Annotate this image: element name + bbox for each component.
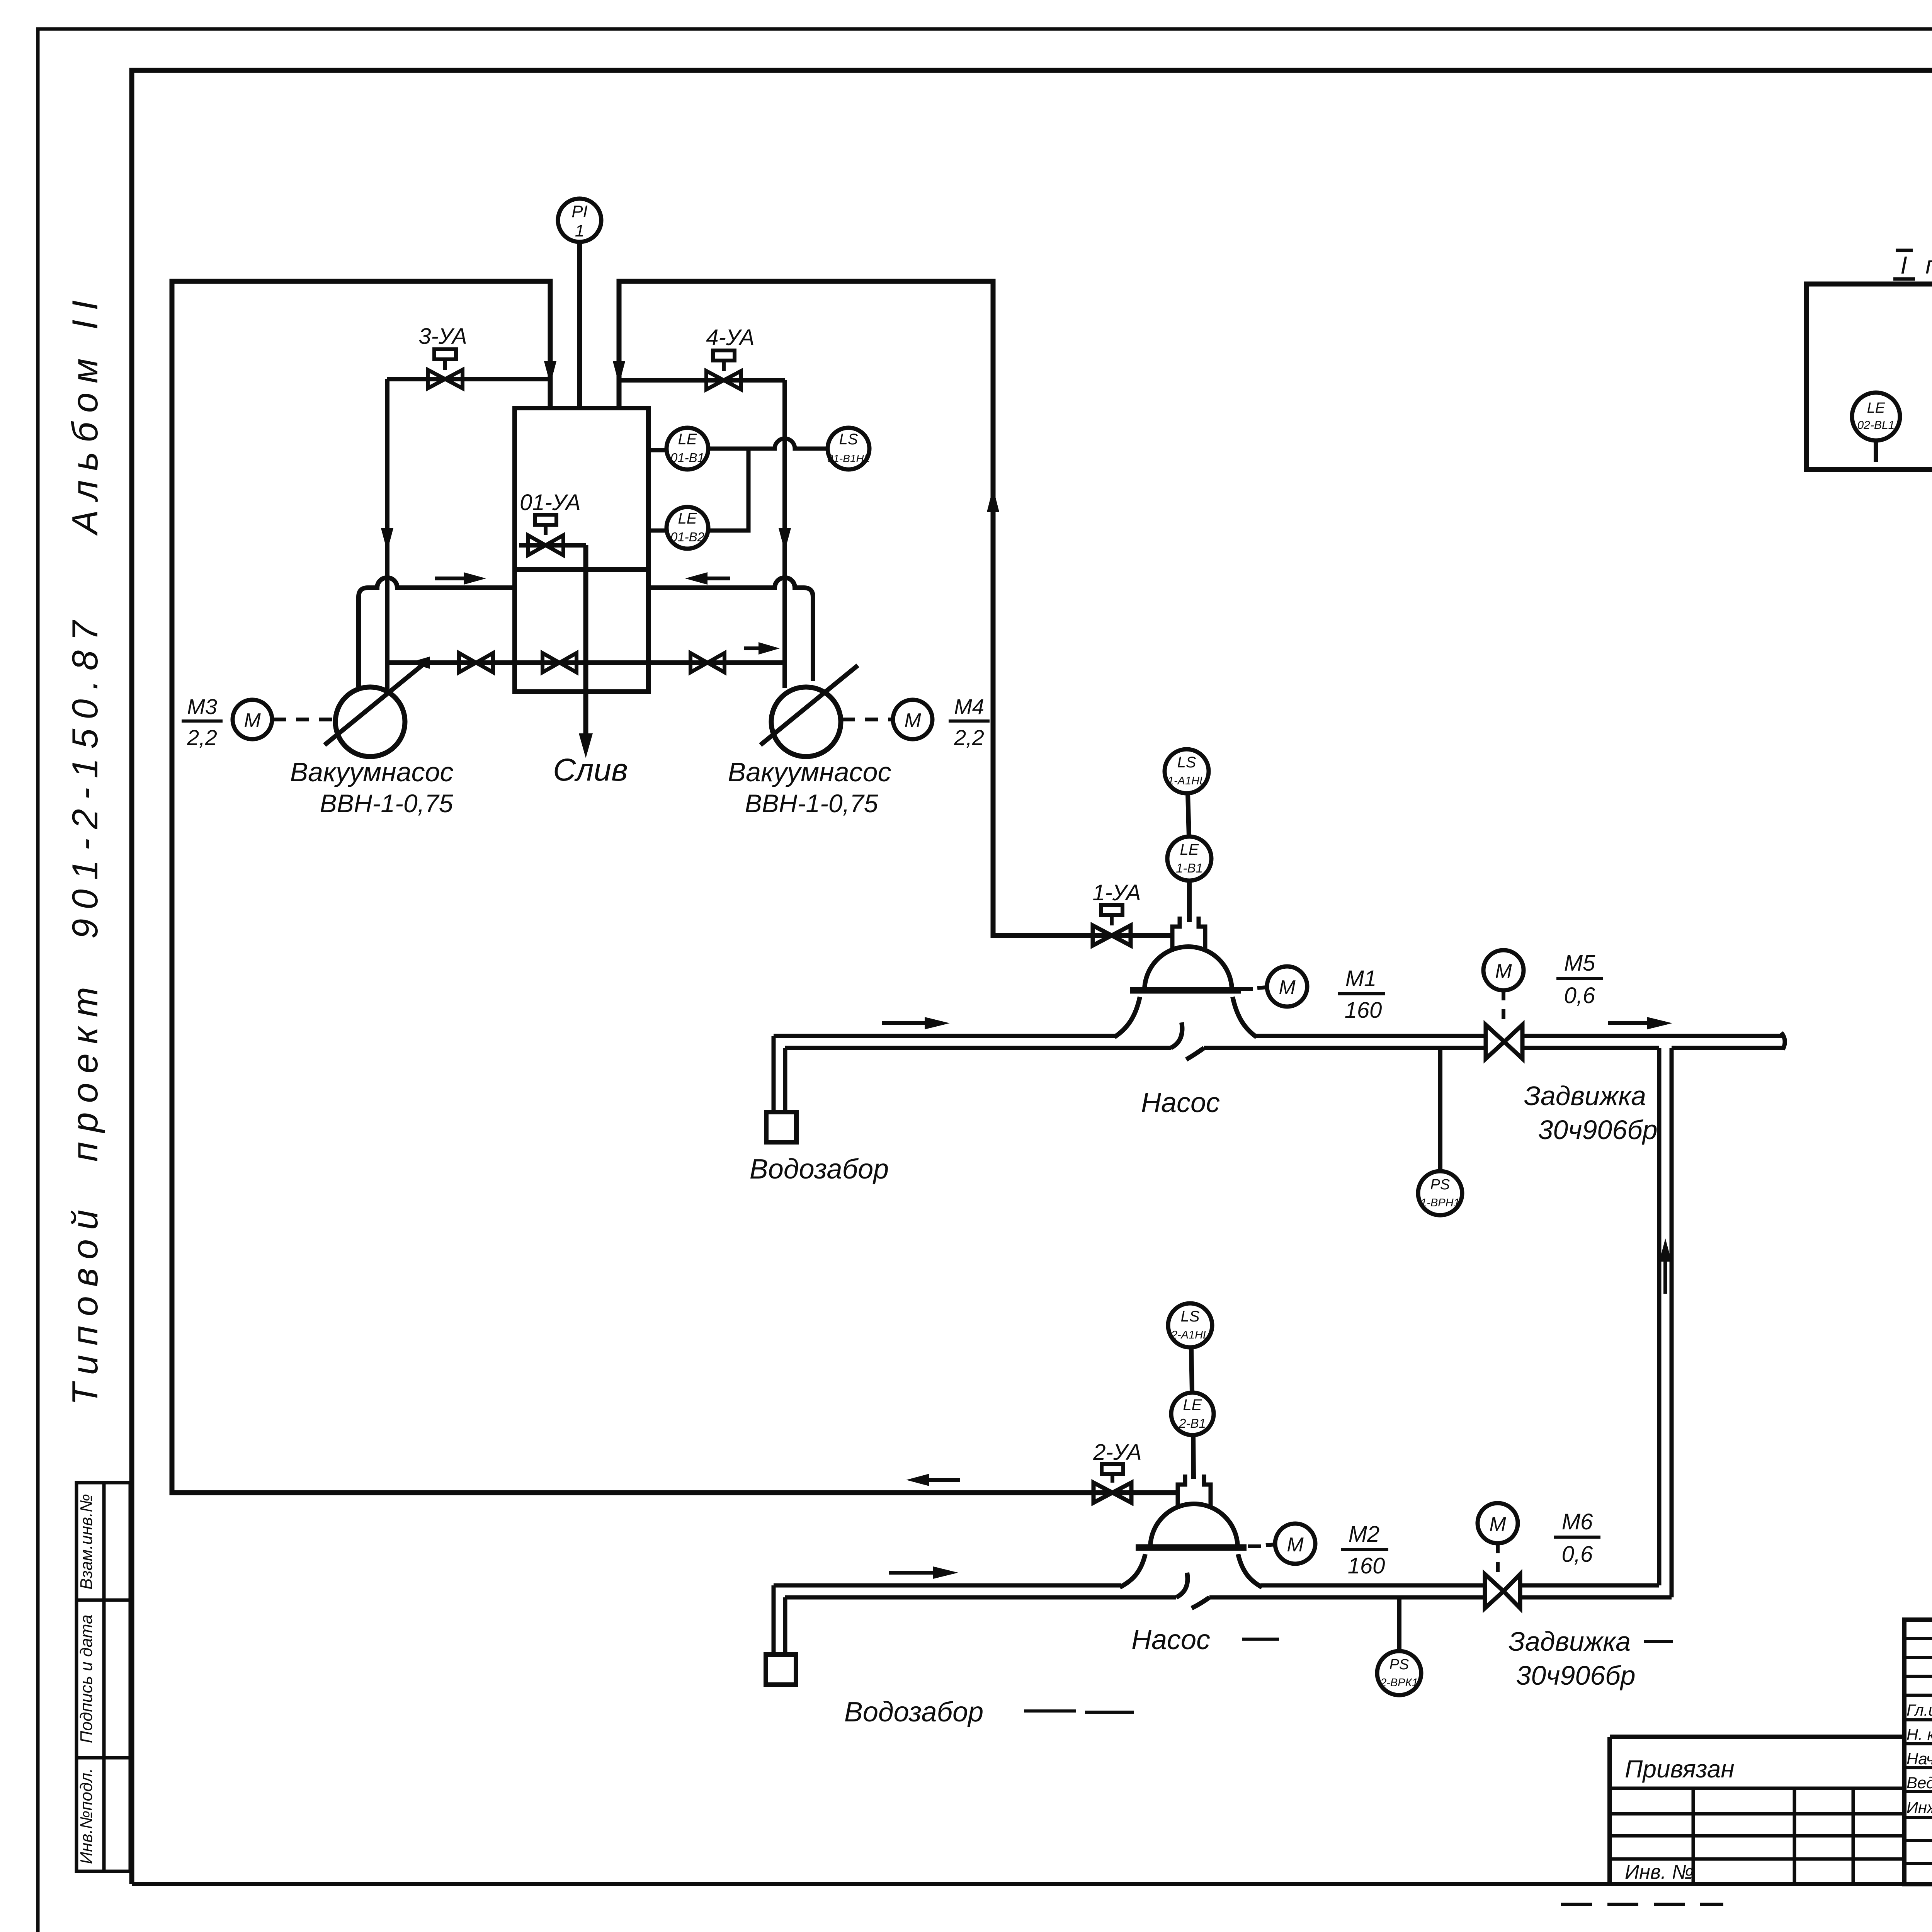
svg-text:Нач. отд.: Нач. отд. <box>1906 1750 1932 1768</box>
check valve 3 <box>690 653 724 672</box>
svg-text:М: М <box>1489 1513 1506 1536</box>
svg-text:1-А1HL: 1-А1HL <box>1168 775 1206 787</box>
label M3/2,2 <box>182 694 223 750</box>
label M4/2,2 <box>949 694 990 750</box>
svg-text:4-УА: 4-УА <box>706 325 754 350</box>
wire suction right pump to tank <box>648 578 813 681</box>
label Насос 2 <box>1131 1624 1279 1655</box>
gate valve 2 <box>1485 1574 1520 1608</box>
arrow right above check line <box>744 642 780 655</box>
svg-text:PS: PS <box>1389 1656 1409 1673</box>
svg-text:ВВН-1-0,75: ВВН-1-0,75 <box>320 789 453 818</box>
motor M4 <box>842 700 932 739</box>
svg-text:2-УА: 2-УА <box>1093 1440 1141 1465</box>
label Инв № <box>1625 1861 1694 1883</box>
svg-text:1-УА: 1-УА <box>1092 880 1141 905</box>
svg-text:Гл.инж.п.: Гл.инж.п. <box>1906 1701 1932 1719</box>
label M2/160 <box>1341 1522 1388 1578</box>
gate valve 1 <box>1486 1025 1522 1059</box>
svg-text:Слив: Слив <box>553 752 628 787</box>
arrow down on right leg <box>613 328 625 384</box>
label Задвижка 1 <box>1524 1081 1658 1145</box>
wire loop right branch <box>619 281 1172 935</box>
svg-text:М: М <box>1495 960 1512 983</box>
bottom strip line <box>132 1882 1932 1886</box>
wire loop left branch <box>172 281 1178 1493</box>
svg-text:М: М <box>904 709 921 732</box>
wire bypass vertical left <box>385 379 389 689</box>
svg-text:Водозабор: Водозабор <box>844 1697 983 1728</box>
svg-text:LE: LE <box>678 431 697 448</box>
valve 3-YA <box>418 324 467 388</box>
svg-text:LE: LE <box>1180 841 1199 858</box>
svg-text:LE: LE <box>1183 1396 1202 1413</box>
svg-text:Задвижка: Задвижка <box>1509 1626 1631 1656</box>
label Слив <box>553 752 628 787</box>
svg-text:LS: LS <box>1177 754 1196 771</box>
svg-text:2-А1HL: 2-А1HL <box>1171 1329 1209 1341</box>
wire LE2 to pump neck <box>1193 1435 1194 1479</box>
label Привязан <box>1625 1755 1735 1783</box>
svg-text:2-ВРК1: 2-ВРК1 <box>1380 1677 1418 1689</box>
drain line Слив <box>579 545 593 758</box>
svg-text:30ч906бр: 30ч906бр <box>1538 1115 1657 1145</box>
left margin cell label Взам.инв.№ <box>77 1494 96 1590</box>
arrow right on pipe 1 suction <box>882 1017 950 1029</box>
svg-text:Привязан: Привязан <box>1625 1755 1735 1783</box>
Привязан table <box>1610 1737 1904 1884</box>
wire bypass 3-YA line <box>387 377 550 381</box>
svg-text:1: 1 <box>575 221 584 240</box>
pipe 1 bottom line <box>785 1046 1784 1050</box>
svg-text:Типовой проект 901-2-150.87: Типовой проект 901-2-150.87 Альбом II <box>65 291 105 1405</box>
label Водозабор 2 <box>844 1697 1134 1728</box>
left margin table <box>77 1483 130 1871</box>
svg-text:160: 160 <box>1348 1553 1385 1578</box>
svg-text:Насос: Насос <box>1141 1087 1220 1118</box>
label M6/0,6 <box>1554 1509 1600 1567</box>
pontoon box I <box>1806 284 1932 469</box>
svg-text:0,6: 0,6 <box>1564 983 1595 1008</box>
arrow right on pipe 1 discharge <box>1608 1017 1672 1029</box>
svg-text:ВВН-1-0,75: ВВН-1-0,75 <box>745 789 878 818</box>
left margin cell label Инв.№подл. <box>77 1768 96 1864</box>
svg-text:2-В1: 2-В1 <box>1179 1416 1206 1430</box>
svg-text:01-В1: 01-В1 <box>670 451 704 465</box>
motor M3 <box>233 700 335 739</box>
pressure switch PS 2 <box>1377 1597 1421 1695</box>
wire bypass 4-YA line <box>619 378 785 383</box>
svg-text:Инж: Инж <box>1906 1798 1932 1816</box>
svg-text:Взам.инв.№: Взам.инв.№ <box>77 1494 96 1590</box>
pressure switch PS 1 <box>1418 1048 1462 1215</box>
valve 2-YA <box>1093 1440 1141 1503</box>
svg-text:Вакуумнасос: Вакуумнасос <box>290 757 453 787</box>
svg-text:Вакуумнасос: Вакуумнасос <box>728 757 891 787</box>
title block signature rows <box>1906 1699 1932 1817</box>
valve 01-YA <box>519 490 586 555</box>
svg-text:2,2: 2,2 <box>954 725 984 750</box>
svg-text:Водозабор: Водозабор <box>750 1154 889 1185</box>
level switch LS 2-A1HL <box>1168 1303 1212 1347</box>
svg-text:01-УА: 01-УА <box>520 490 581 515</box>
arrow left on right suction <box>685 572 730 585</box>
arrow left on loop bottom <box>906 1474 960 1486</box>
svg-text:PS: PS <box>1430 1177 1450 1193</box>
svg-text:понтон: понтон <box>1925 251 1932 279</box>
svg-text:160: 160 <box>1345 998 1382 1023</box>
label Водозабор 1 <box>750 1154 889 1185</box>
pipe 1 end cap <box>1781 1032 1785 1049</box>
vacuum pump right <box>760 665 858 757</box>
level sensor LE 02-BL1 <box>1852 393 1900 462</box>
svg-text:Подпись и дата: Подпись и дата <box>77 1615 96 1743</box>
svg-text:М4: М4 <box>954 694 984 719</box>
check valve 2 <box>543 653 577 672</box>
level sensor LE 01-B2 <box>648 507 708 549</box>
svg-text:3-УА: 3-УА <box>418 324 467 349</box>
discharge riser double line <box>1659 1048 1672 1597</box>
left margin stamp text <box>65 291 105 1405</box>
svg-text:LE: LE <box>1867 400 1885 416</box>
pipe 2 top line <box>774 1583 1659 1588</box>
svg-text:LS: LS <box>839 431 858 448</box>
left margin cell label Подпись и дата <box>77 1615 96 1743</box>
pump 2 body <box>1120 1475 1262 1608</box>
arrow down on left bypass vertical <box>381 495 393 551</box>
level switch LS 1-A1HL <box>1165 749 1209 793</box>
wire LS2 to LE2 <box>1191 1347 1192 1393</box>
pipe 1 top line <box>774 1034 1782 1038</box>
svg-text:1-ВРН1: 1-ВРН1 <box>1420 1197 1460 1209</box>
motor M2 <box>1248 1524 1315 1564</box>
svg-text:30ч906бр: 30ч906бр <box>1516 1660 1635 1690</box>
motor M6 <box>1478 1503 1518 1574</box>
wire LE 01-B2 to signal line <box>708 450 748 531</box>
arrow up in riser <box>1659 1238 1672 1294</box>
vacuum pump left <box>325 665 422 757</box>
arrow down on right bypass vertical <box>779 495 791 551</box>
wire LE 01-B1 to LS <box>708 439 828 449</box>
arrow down on left leg <box>544 328 556 384</box>
arrow right on pipe 2 suction <box>889 1566 958 1579</box>
wire LS1 to LE1 <box>1188 793 1189 837</box>
svg-text:М2: М2 <box>1349 1522 1380 1547</box>
pump 1 body <box>1114 917 1257 1060</box>
svg-text:М: М <box>1279 976 1296 999</box>
svg-text:01-В1HL: 01-В1HL <box>827 452 870 464</box>
arrow right on left suction <box>435 572 486 585</box>
pressure gauge PI 1 <box>558 199 601 242</box>
svg-text:М5: М5 <box>1564 951 1595 976</box>
label M1/160 <box>1338 966 1385 1023</box>
motor M5 <box>1483 950 1524 1025</box>
wire bypass vertical right <box>782 380 787 688</box>
level sensor LE 2-B1 <box>1171 1393 1214 1435</box>
svg-text:PI: PI <box>571 202 588 221</box>
svg-text:0,6: 0,6 <box>1562 1542 1593 1567</box>
check valve 1 <box>459 653 493 672</box>
svg-text:Н. контр: Н. контр <box>1906 1725 1932 1743</box>
motor M1 <box>1240 966 1307 1007</box>
svg-text:М: М <box>244 709 261 732</box>
svg-text:М: М <box>1287 1534 1304 1556</box>
title block frame <box>1904 1620 1932 1884</box>
svg-text:I: I <box>1900 251 1907 279</box>
svg-text:02-ВL1: 02-ВL1 <box>1857 419 1895 432</box>
svg-text:Насос: Насос <box>1131 1624 1210 1655</box>
svg-text:Задвижка: Задвижка <box>1524 1081 1646 1111</box>
valve 4-YA <box>706 325 754 389</box>
label vacuum pump left <box>290 757 453 818</box>
label Насос 1 <box>1141 1087 1220 1118</box>
arrow left on check line <box>409 656 448 669</box>
svg-text:Инв.№подл.: Инв.№подл. <box>77 1768 96 1864</box>
label M5/0,6 <box>1556 951 1603 1008</box>
label I понтон <box>1893 250 1932 279</box>
pipe 2 bottom line <box>785 1595 1672 1600</box>
wire PI stem to tank <box>577 242 582 408</box>
svg-text:М3: М3 <box>187 694 217 719</box>
level sensor LE 1-B1 <box>1167 837 1211 881</box>
label vacuum pump right <box>728 757 891 818</box>
svg-text:LS: LS <box>1181 1308 1200 1325</box>
valve 1-YA <box>1092 880 1141 946</box>
label Задвижка 2 <box>1509 1626 1673 1690</box>
svg-text:2,2: 2,2 <box>187 725 217 750</box>
wire LE1 to pump neck <box>1187 881 1192 922</box>
level switch LS 01-B1HL <box>827 428 870 469</box>
wire suction left pump to tank <box>359 578 515 687</box>
level sensor LE 01-B1 <box>648 428 708 469</box>
stray dashed line below title <box>1561 1903 1723 1906</box>
arrow up on loop right vertical <box>987 488 999 553</box>
svg-text:Вед.инж.: Вед.инж. <box>1906 1774 1932 1792</box>
svg-text:01-В2: 01-В2 <box>670 530 704 544</box>
svg-text:Инв. №: Инв. № <box>1625 1861 1694 1883</box>
svg-text:М1: М1 <box>1345 966 1377 991</box>
water intake 1 <box>766 1036 796 1142</box>
vacuum tank <box>515 408 648 692</box>
svg-text:1-В1: 1-В1 <box>1176 861 1203 875</box>
svg-text:LE: LE <box>678 510 697 527</box>
wire check-valve line <box>387 660 785 665</box>
water intake 2 <box>766 1585 796 1685</box>
svg-text:М6: М6 <box>1562 1509 1593 1534</box>
